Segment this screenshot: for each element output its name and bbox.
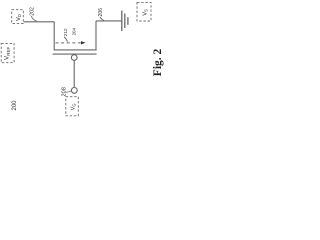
- leader 206: [100, 17, 104, 21]
- node circle: [71, 88, 77, 94]
- svg-text:204: 204: [72, 28, 77, 36]
- svg-text:Fig. 2: Fig. 2: [152, 48, 164, 76]
- voltage source box VG (dashed): [66, 97, 79, 116]
- svg-text:202: 202: [30, 7, 36, 16]
- ground symbol: [121, 11, 123, 32]
- svg-text:VD: VD: [16, 14, 22, 21]
- tub electrode 204 (open-top U): [54, 21, 96, 50]
- voltage source box VREF (dashed): [1, 43, 14, 62]
- svg-text:206: 206: [98, 8, 104, 17]
- gate contact circle: [71, 55, 77, 61]
- voltage source box VD (dashed): [12, 10, 24, 24]
- svg-text:200: 200: [12, 100, 18, 111]
- wire tub to ground: [96, 20, 121, 22]
- leader 208: [66, 91, 72, 93]
- dashed current arrow: [56, 42, 81, 44]
- svg-text:VS: VS: [142, 9, 148, 16]
- leader 202: [31, 16, 36, 21]
- leader hook 212: [64, 37, 67, 42]
- wire contact to node: [73, 60, 75, 87]
- bottom electrode line: [53, 53, 97, 55]
- voltage source box VS (dashed): [137, 2, 151, 21]
- svg-text:212: 212: [63, 28, 69, 36]
- svg-text:VG: VG: [70, 103, 76, 110]
- svg-text:VREF: VREF: [4, 47, 11, 60]
- wire from VD box to tub: [24, 21, 55, 23]
